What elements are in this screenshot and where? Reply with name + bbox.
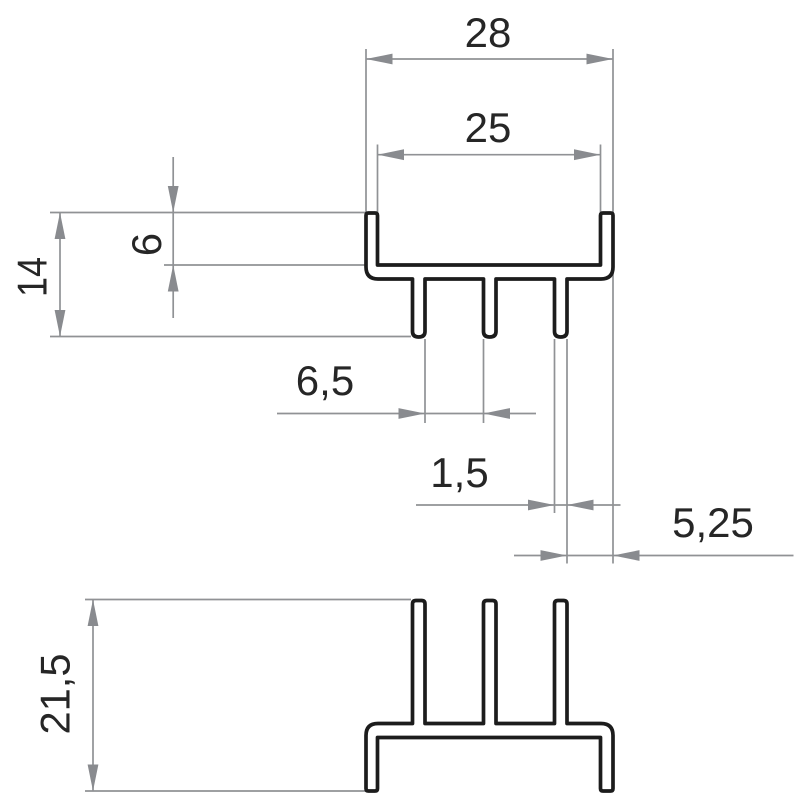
arrowhead 6,5 right (outside, pointing left) xyxy=(484,408,511,419)
arrowhead 25 left xyxy=(378,149,405,160)
arrowhead 21,5 bottom xyxy=(88,765,99,792)
extension line 28 left (x=366) xyxy=(365,49,367,212)
arrowhead 6 top (outside, pointing down) xyxy=(168,186,179,213)
extension line 1,5 left (fin3 left edge) xyxy=(554,339,556,513)
svg-text:21,5: 21,5 xyxy=(32,654,79,735)
svg-text:14: 14 xyxy=(9,257,56,297)
arrowhead 28 left xyxy=(366,54,393,65)
arrowhead 5,25 right (outside, pointing left) xyxy=(613,550,640,561)
extension line fin bottom (y=336.5) xyxy=(50,336,411,338)
dimension line 28 xyxy=(366,58,613,60)
extension line wall top (y=212.5) xyxy=(50,212,366,214)
arrowhead 1,5 right (outside, pointing left) xyxy=(567,500,594,511)
arrowhead 28 right xyxy=(587,54,614,65)
arrowhead 21,5 top xyxy=(88,600,99,627)
dimension line 5,25 xyxy=(514,555,794,557)
arrowhead 25 right xyxy=(574,149,601,160)
dimension line 1,5 xyxy=(416,504,621,506)
extension line 25 left (x=377.5) xyxy=(377,145,379,213)
bottom view profile outline (channel with 3 fins up) xyxy=(366,601,613,792)
extension line 1,5 right / 5,25 left (fin3 right edge) xyxy=(566,339,568,564)
svg-text:5,25: 5,25 xyxy=(672,499,754,546)
arrowhead 14 top xyxy=(55,213,66,240)
extension line bar top (y=265) xyxy=(164,264,366,266)
extension line bottom view wall bottom (y=790) xyxy=(85,790,366,792)
dimension line 25 xyxy=(378,154,601,156)
dimension line 6,5 xyxy=(277,413,536,415)
extension line 6,5 right (fin2 left edge) xyxy=(483,339,485,423)
top view profile outline (channel with 3 fins down) xyxy=(366,213,613,337)
svg-text:6,5: 6,5 xyxy=(296,357,354,404)
svg-text:6: 6 xyxy=(123,233,170,256)
arrowhead 5,25 left (outside, pointing right) xyxy=(541,550,568,561)
extension line 28 right / 5,25 right (x=613) xyxy=(612,49,614,564)
dimension line 14 xyxy=(59,213,61,337)
extension line bottom view fin top (y=599.5) xyxy=(85,599,411,601)
svg-text:1,5: 1,5 xyxy=(430,449,488,496)
svg-text:28: 28 xyxy=(465,9,512,56)
svg-text:25: 25 xyxy=(465,104,512,151)
dimension line 6 xyxy=(172,157,174,318)
arrowhead 1,5 left (outside, pointing right) xyxy=(528,500,555,511)
dimension line 21,5 xyxy=(92,600,94,792)
arrowhead 6,5 left (outside, pointing right) xyxy=(399,408,426,419)
arrowhead 14 bottom xyxy=(55,310,66,337)
arrowhead 6 bottom (outside, pointing up) xyxy=(168,265,179,292)
extension line 25 right (x=600.5) xyxy=(600,145,602,213)
extension line 6,5 left (fin1 right edge) xyxy=(424,339,426,423)
